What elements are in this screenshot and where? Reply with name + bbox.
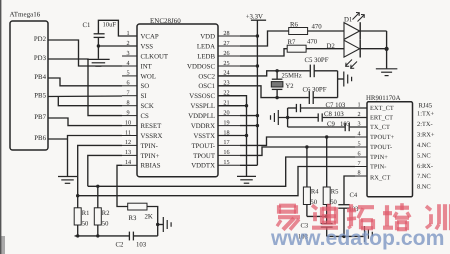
junction C8 [286,116,289,119]
U1 right pin 27 LEDA stub [218,45,240,47]
U1 right pin 18 VSSTX stub [218,135,240,137]
T1 left pin 8 RX_CT stub [355,175,367,177]
wire C6 to gnd vertical [313,97,337,99]
U1 left pin 14 RBIAS stub [122,164,137,166]
U1 right pin 22 VSSOSC stub [218,95,240,97]
wire LEDA pin27 to R6 [240,31,289,46]
wire OSC1 pin23 to crystal bottom [218,86,309,98]
capacitor C6 plates [308,91,310,104]
wire OSC2 pin24 to crystal top [218,71,310,76]
wire R7 to D2 [306,48,344,50]
wire C7 to T1 pin1 EXT_CT [288,107,296,109]
long wire TPIN- net to T1 pin7 [78,167,355,196]
watermark www.edatop.com [271,227,450,251]
wire TPIN- pin12 to R1 [78,145,122,195]
U1 left pin 10 RESET stub [122,125,137,127]
wire VSSTX pin18 [218,135,247,137]
ground under U1 [237,175,256,177]
side ground crystal [343,72,345,87]
scan smudge bottom-left corner [0,236,5,254]
crystal Y2 [276,71,278,79]
wire VSSPLL pin21 [218,105,247,107]
U1 left pin 9 CS stub [122,115,137,117]
junction R4 top [305,145,308,148]
side ground R3 [162,217,164,232]
capacitor C5 plates [309,65,311,78]
T1 left pin 3 TX_CT stub [355,126,367,128]
U1 left pin 7 SI stub [122,95,137,97]
wire C2 to R3 node [133,235,157,237]
U1 right pin 26 LEDB stub [218,55,240,57]
T1 left pin 4 TPOUT+ stub [355,136,367,138]
junction R5 top [325,135,328,138]
wire D1 cathode down [360,30,386,32]
resistor R7 [287,45,306,52]
crystal right vertical [337,71,339,98]
junction R3 ground [156,223,159,226]
wire RX_CT pin8 to C4 [344,176,355,205]
U1 left pin 6 SO stub [122,85,137,87]
wire VCAP pin1 routing [98,20,137,36]
resistor R6 [289,28,308,35]
U1 left pin 8 SCK stub [122,105,137,107]
capacitor C3 [326,216,328,223]
wire branch to U1 pin8 SCK [58,96,122,105]
wire VSS pin2 [98,45,137,47]
long wire TPIN+ net to T1 pin6 [88,157,355,186]
U1 right pin 28 VDD stub [218,35,240,37]
scan edge artifact left border [0,0,2,254]
U1 right pin 16 TPOUT stub [218,154,240,156]
T1 left pin 5 TPOUT- stub [355,146,367,148]
wire C1 to ground / VSS node [97,37,99,58]
wire bottom R1 R2 to C2 [75,235,129,237]
wire VSSRX pin11 to ground [68,136,123,177]
wire PB7 to U1 pin10 RESET [48,118,122,126]
wire VDDRX pin19 [240,125,257,127]
U1 left pin 12 TPIN- stub [122,144,137,146]
bottom wire C3 C4 ground [327,235,364,237]
wire to side ground [158,224,164,226]
U1 left pin 1 VCAP stub [122,35,137,37]
vertical joining C7 C8 C9 [287,108,289,127]
wire RBIAS pin14 to R3 [117,165,128,206]
capacitor C1 plates [94,33,105,35]
wire TPOUT pin16 to T1 pin5 [240,147,355,155]
wire D2 cathode [360,48,386,50]
U1 right pin 15 VDDTX stub [218,164,240,166]
wire PB4 to U1 pin6 SO [48,78,122,86]
D1 light arrows [353,13,365,22]
junction node VSS [97,44,100,47]
U1 right pin 25 VDDOSC stub [218,65,240,67]
resistor R3 [128,203,147,210]
wire C8 to T1 pin2 ERT_CT [279,117,318,119]
junction LED cathodes [385,47,389,51]
capacitor C7 plates [295,104,297,112]
+3.3V bus vertical [256,20,258,165]
LED D1 [344,23,360,40]
wire R6 to D1 [308,30,344,32]
wire VDD pin28 [240,35,257,37]
wire VSSOSC pin22 [218,96,247,176]
resistor R2 [97,186,99,208]
LED D2 [344,40,360,57]
wire PD2 to U1 pin4 INT [48,40,122,66]
U1 right pin 19 VDDRX stub [218,125,240,127]
U1 left pin 5 WOL stub [122,75,137,77]
wire TPIN+ pin13 to R2 [88,155,122,186]
wire C5 to gnd vertical [314,70,337,72]
wire C4 down [343,208,345,236]
ethernet controller U1 ENC28J60 box [137,24,218,177]
wire PB6 [48,138,68,140]
U1 right pin 17 TPOUT- stub [218,144,240,146]
T1 left pin 2 ERT_CT stub [355,117,367,119]
ground below LEDs [376,68,398,70]
U1 left pin 4 INT stub [122,65,137,67]
resistor R4 [306,147,308,187]
ground under ATmega [58,176,77,178]
U1 left pin 13 TPIN+ stub [122,154,137,156]
wire TPOUT- pin17 to T1 pin4 [240,137,355,145]
resistor R5 [326,137,328,187]
wire VDDOSC pin25 [240,65,257,67]
D2 light arrows [346,60,358,69]
U1 right pin 21 VSSPLL stub [218,105,240,107]
junction R1 top [76,194,79,197]
ground below C1 [87,58,110,60]
wire R3 right to ground node [147,207,158,236]
U1 left pin 3 CLKOUT stub [122,55,137,57]
wire PB5 to U1 pin7 SI [48,95,122,98]
MCU U2 ATmega16 box [10,21,48,150]
crystal taps junctions [275,69,278,72]
junction R2 top [96,185,99,188]
capacitor C4 plates [338,204,350,206]
junction C3 top [325,215,328,218]
wire R4 R5 bottoms [307,215,327,217]
wire PD3 to U1 pin9 CS [48,59,122,116]
U1 right pin 20 VDDPLL stub [218,115,240,117]
wire LEDB pin26 to R7 [240,49,287,56]
wire to side ground [338,78,344,80]
resistor R1 [77,196,79,208]
T1 left pin 7 TPIN- stub [355,166,367,168]
wire C9 to T1 pin3 TX_CT [288,126,345,128]
U1 right pin 23 OSC1 stub [218,85,240,87]
side ground bottom right [364,226,366,242]
T1 left pin 6 TPIN+ stub [355,156,367,158]
junction C4 bottom [342,235,345,238]
U1 left pin 2 VSS stub [122,45,137,47]
T1 left pin 1 EXT_CT stub [355,107,367,109]
capacitor C2 plates [128,232,130,241]
wire VDDPLL pin20 [240,115,257,117]
capacitor C9 plates [344,123,346,131]
power +3.3V symbol [251,19,266,21]
side ground C8 [277,110,279,125]
wire VDDTX pin15 to bus [240,164,257,166]
U1 left pin 11 VSSRX stub [122,135,137,137]
U1 right pin 24 OSC2 stub [218,75,240,77]
magjack T1 HR901170A box [367,102,413,197]
capacitor C8 plates [317,113,319,121]
